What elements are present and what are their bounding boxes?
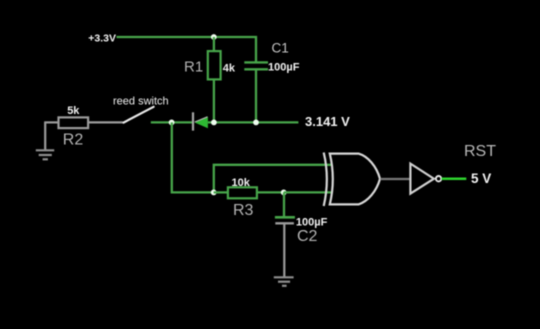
inverter U2 triangle (410, 164, 434, 194)
svg-text:RST: RST (464, 143, 496, 160)
capacitor C1 (244, 62, 268, 69)
label C2 (297, 228, 318, 245)
wire left loop down to R3 row (172, 122, 214, 192)
ground (C2) (274, 277, 294, 286)
capacitor C2 (275, 217, 295, 223)
wire upper branch to gate top input (214, 165, 333, 193)
wire R3 left lead (214, 191, 229, 193)
svg-text:C2: C2 (297, 228, 318, 245)
svg-text:10k: 10k (232, 177, 251, 189)
label C1 (272, 41, 289, 56)
junction dot R1 / diode anode (211, 120, 217, 126)
label 5k (67, 105, 80, 117)
label 3.141 V (305, 114, 350, 129)
svg-text:+3.3V: +3.3V (88, 32, 116, 44)
wire switch to diode node (151, 121, 192, 123)
label R1 (184, 59, 203, 76)
wire gate output (380, 178, 410, 180)
svg-text:100µF: 100µF (268, 61, 300, 73)
svg-text:R2: R2 (63, 131, 84, 148)
svg-text:C1: C1 (272, 41, 289, 56)
label 4k (223, 63, 236, 75)
junction dot switch node (169, 120, 175, 126)
label 5 V (471, 171, 491, 186)
svg-text:reed switch: reed switch (113, 95, 169, 107)
wire R2 right lead (88, 121, 123, 123)
inverter U2 bubble (436, 176, 441, 181)
svg-text:5k: 5k (67, 105, 80, 117)
wire C1 bottom lead (255, 70, 257, 122)
wire R3 right lead (257, 191, 284, 193)
wire C2 top lead (283, 192, 285, 216)
ground (left, R2) (36, 122, 54, 159)
wire 3.141V node (208, 121, 299, 123)
svg-text:100µF: 100µF (296, 216, 328, 228)
xor gate U1 input side extra arc (324, 153, 327, 207)
svg-text:R3: R3 (233, 202, 254, 219)
wire C2 bottom lead (283, 225, 285, 277)
label 10k (232, 177, 251, 189)
label RST (464, 143, 496, 160)
wire to gate bottom input (284, 191, 332, 193)
svg-text:5 V: 5 V (471, 171, 491, 186)
xor gate U1 body (330, 154, 380, 205)
wire R1 top lead (213, 37, 215, 52)
label 100uF C2 (296, 216, 328, 228)
label R2 (63, 131, 84, 148)
reed switch blade (124, 107, 154, 123)
diode D1 cathode bar (192, 112, 194, 130)
wire R2 left lead (44, 121, 58, 123)
svg-text:R1: R1 (184, 59, 203, 76)
junction dot C1 node (253, 120, 259, 126)
svg-text:4k: 4k (223, 63, 236, 75)
junction dot R3 left (211, 190, 217, 196)
label 100uF C1 (268, 61, 300, 73)
label reed switch (113, 95, 169, 107)
diode D1 triangle (194, 117, 208, 129)
junction dot R3 right / C2 (281, 190, 287, 196)
resistor R3 (228, 187, 257, 198)
wire RST output (442, 177, 467, 180)
node +3.3V label (88, 32, 116, 44)
junction dot top rail / R1 (211, 34, 217, 40)
wire +3.3V rail to C1 (117, 37, 257, 62)
resistor R2 (59, 117, 89, 128)
label R3 (233, 202, 254, 219)
svg-text:3.141 V: 3.141 V (305, 114, 350, 129)
wire R1 bottom lead (213, 79, 215, 122)
resistor R1 (208, 51, 221, 79)
